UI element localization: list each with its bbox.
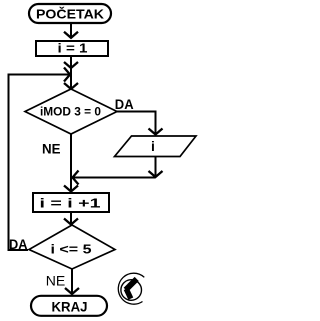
terminator POČETAK — [29, 4, 111, 23]
svg-text:POČETAK: POČETAK — [36, 7, 105, 22]
svg-text:KRAJ: KRAJ — [52, 298, 88, 314]
process i = i +1 — [33, 193, 109, 212]
logo glyph — [126, 279, 137, 290]
svg-text:NE: NE — [42, 141, 61, 157]
wire: merge line into main — [73, 171, 156, 185]
output parallelogram i — [115, 136, 197, 157]
wire: diamond1 to i=i+1 — [64, 134, 78, 192]
logo inner circle — [121, 280, 142, 301]
terminator KRAJ — [31, 296, 107, 316]
decision iMOD 3 = 0 — [25, 89, 117, 134]
wire: DA branch to output — [117, 112, 163, 135]
wire: i=i+1 to diamond 2 — [64, 213, 78, 225]
wire: loop return (left side) — [9, 68, 71, 251]
svg-text:DA: DA — [115, 96, 134, 112]
wire: diamond2 to KRAJ — [65, 269, 79, 294]
wire: POČETAK to i=1 — [64, 24, 78, 39]
wire: i=1 down to diamond 1 — [64, 57, 78, 90]
svg-text:i = i +1: i = i +1 — [40, 196, 101, 211]
decision i <= 5 — [29, 225, 115, 269]
svg-text:i <= 5: i <= 5 — [51, 242, 92, 257]
process i = 1 — [36, 41, 108, 57]
wire: output down — [149, 157, 163, 178]
svg-text:DA: DA — [9, 236, 28, 252]
svg-text:i: i — [151, 138, 155, 154]
logo outer arc — [118, 273, 144, 304]
svg-text:NE: NE — [46, 272, 66, 288]
svg-text:i = 1: i = 1 — [58, 41, 88, 56]
svg-text:iMOD 3 = 0: iMOD 3 = 0 — [40, 105, 101, 119]
